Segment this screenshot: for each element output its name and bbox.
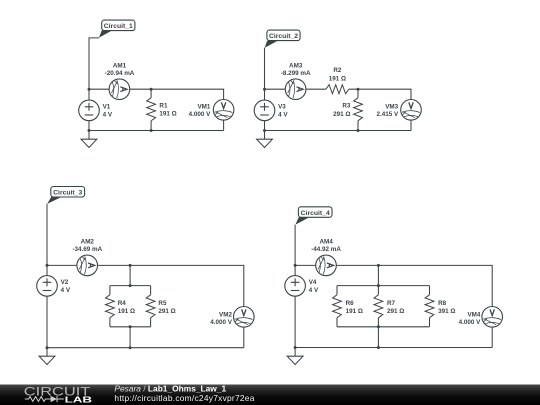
svg-text:4.000 V: 4.000 V: [210, 319, 233, 326]
wire bottom C4: [295, 347, 492, 349]
wire V2 bottom lead: [46, 296, 48, 348]
node C1 bottom-left: [88, 129, 91, 132]
wire ground lead C4: [294, 348, 296, 357]
svg-text:4 V: 4 V: [309, 287, 319, 294]
node C1 top-left: [88, 88, 91, 91]
label callout Circuit_2: [265, 30, 300, 48]
wire main right C2: [349, 89, 411, 99]
wire V3 top lead: [264, 89, 266, 100]
voltmeter VM3: [401, 100, 422, 121]
svg-text:R3: R3: [342, 103, 351, 110]
ammeter AM1: [109, 79, 130, 100]
logo diode: [51, 396, 64, 402]
wire VM4 bottom lead: [491, 327, 493, 347]
node C4 top-left: [294, 264, 297, 267]
node C4 branch bottom: [377, 346, 380, 349]
svg-text:http://circuitlab.com/c24y7xvp: http://circuitlab.com/c24y7xvpr72ea: [114, 393, 254, 403]
svg-text:Circuit_3: Circuit_3: [53, 190, 82, 197]
wire ground lead C1: [88, 131, 90, 140]
wire callout stub C3: [46, 204, 48, 266]
node C3 bar top: [129, 284, 132, 287]
wire bottom C1: [89, 130, 224, 132]
node C3 bar bottom: [129, 325, 132, 328]
svg-text:-44.92 mA: -44.92 mA: [311, 246, 341, 253]
node C2 R3 top: [357, 88, 360, 91]
node C3 top-left: [46, 264, 49, 267]
resistor R4: [106, 286, 115, 327]
wire bottom bar C3: [110, 326, 151, 328]
wire main right C1: [130, 89, 224, 99]
ground C3: [39, 356, 55, 364]
wire V1 bottom lead: [88, 121, 90, 131]
svg-text:VM1: VM1: [197, 104, 210, 111]
svg-text:Circuit_4: Circuit_4: [301, 210, 330, 217]
node C3 branch bottom: [129, 346, 132, 349]
svg-text:2.415 V: 2.415 V: [376, 111, 399, 118]
wire top bar C3: [110, 285, 151, 287]
ammeter AM3: [285, 79, 306, 100]
svg-text:Circuit_2: Circuit_2: [269, 33, 298, 40]
wire VM3 bottom lead: [410, 120, 412, 130]
resistor R2: [326, 85, 349, 94]
voltmeter VM4: [482, 307, 503, 328]
ground C1: [81, 139, 97, 147]
svg-text:291 Ω: 291 Ω: [387, 308, 404, 315]
svg-text:AM3: AM3: [289, 62, 303, 69]
svg-text:391 Ω: 391 Ω: [438, 308, 455, 315]
node C2 bottom-left: [263, 129, 266, 132]
voltage source V1: [79, 100, 100, 121]
node C2 R3 bottom: [357, 129, 360, 132]
svg-text:R1: R1: [159, 103, 168, 110]
wire callout stub C1: [89, 38, 99, 89]
svg-text:-34.69 mA: -34.69 mA: [72, 246, 102, 253]
svg-text:291 Ω: 291 Ω: [333, 111, 350, 118]
node C4 bar top: [377, 284, 380, 287]
wire main left C4: [295, 264, 316, 266]
resistor R6: [333, 286, 342, 327]
label callout Circuit_3: [47, 187, 84, 204]
svg-text:Circuit_1: Circuit_1: [104, 23, 133, 30]
svg-text:AM2: AM2: [81, 239, 95, 246]
logo wire resistor: [25, 397, 51, 402]
node C2 top-left: [263, 88, 266, 91]
svg-text:291 Ω: 291 Ω: [158, 308, 175, 315]
node C1 R1 top: [150, 88, 153, 91]
wire bottom C3: [47, 347, 244, 349]
node C1 R1 bottom: [150, 129, 153, 132]
voltmeter VM2: [234, 307, 255, 328]
voltage source V4: [285, 276, 306, 297]
ground C4: [287, 356, 303, 364]
resistor R8: [425, 286, 434, 327]
wire callout stub C4: [294, 225, 296, 266]
wire parallel drop C4: [377, 265, 379, 285]
node C4 bar bottom: [377, 325, 380, 328]
svg-text:R8: R8: [438, 300, 447, 307]
wire top bar C4: [337, 285, 430, 287]
svg-text:191 Ω: 191 Ω: [159, 111, 176, 118]
node C3 branch top: [129, 264, 132, 267]
wire main right C4: [336, 265, 492, 306]
resistor R7: [374, 286, 383, 327]
voltage source V2: [37, 276, 58, 297]
label callout Circuit_1: [99, 20, 135, 38]
ammeter AM2: [77, 255, 98, 276]
wire ground lead C3: [46, 348, 48, 357]
resistor R5: [146, 286, 155, 327]
wire callout stub C2: [264, 48, 266, 90]
svg-text:V2: V2: [61, 279, 69, 286]
wire V4 bottom lead: [294, 296, 296, 347]
wire parallel bottom drop C4: [377, 327, 379, 348]
svg-text:-8.299 mA: -8.299 mA: [281, 70, 311, 77]
wire parallel bottom drop C3: [129, 327, 131, 348]
svg-text:AM1: AM1: [113, 62, 127, 69]
wire V4 top lead: [294, 265, 296, 275]
svg-text:LAB: LAB: [65, 395, 93, 404]
wire VM2 bottom lead: [243, 327, 245, 348]
wire V3 bottom lead: [264, 121, 266, 131]
svg-text:4.000 V: 4.000 V: [189, 111, 212, 118]
wire VM1 bottom lead: [223, 120, 225, 130]
svg-text:AM4: AM4: [319, 239, 333, 246]
wire AM3 to R2: [306, 88, 326, 90]
node C4 bottom-left: [294, 346, 297, 349]
voltage source V3: [254, 100, 275, 121]
ground C2: [257, 139, 273, 147]
wire main left C3: [47, 264, 77, 266]
node C4 branch top: [377, 264, 380, 267]
svg-text:191 Ω: 191 Ω: [346, 308, 363, 315]
svg-text:V1: V1: [103, 104, 111, 111]
label callout Circuit_4: [295, 207, 332, 225]
node C3 bottom-left: [46, 346, 49, 349]
svg-text:R5: R5: [158, 300, 167, 307]
voltmeter VM1: [213, 100, 234, 121]
wire main left C1: [89, 88, 109, 90]
svg-text:-20.94 mA: -20.94 mA: [105, 70, 135, 77]
wire main left C2: [265, 88, 286, 90]
svg-text:R2: R2: [333, 67, 342, 74]
footer bar: [0, 385, 540, 405]
ammeter AM4: [316, 255, 337, 276]
resistor R1: [147, 89, 156, 130]
wire V1 top lead: [88, 89, 90, 100]
wire bottom bar C4: [337, 326, 430, 328]
svg-text:191 Ω: 191 Ω: [118, 308, 135, 315]
svg-text:VM3: VM3: [385, 104, 398, 111]
wire V2 top lead: [46, 265, 48, 275]
wire bottom C2: [265, 130, 412, 132]
svg-text:4 V: 4 V: [278, 112, 288, 119]
svg-text:R7: R7: [387, 300, 396, 307]
svg-text:R6: R6: [346, 300, 355, 307]
resistor R3: [354, 89, 363, 130]
wire parallel drop C3: [129, 265, 131, 285]
wire main right C3: [98, 265, 244, 306]
wire ground lead C2: [264, 131, 266, 140]
svg-text:4 V: 4 V: [103, 112, 113, 119]
svg-text:V4: V4: [309, 279, 317, 286]
svg-text:R4: R4: [118, 300, 127, 307]
svg-text:VM4: VM4: [467, 311, 480, 318]
svg-text:V3: V3: [278, 104, 286, 111]
svg-text:VM2: VM2: [219, 311, 232, 318]
svg-text:4.000 V: 4.000 V: [459, 319, 482, 326]
svg-text:191 Ω: 191 Ω: [329, 75, 346, 82]
svg-text:4 V: 4 V: [61, 287, 71, 294]
